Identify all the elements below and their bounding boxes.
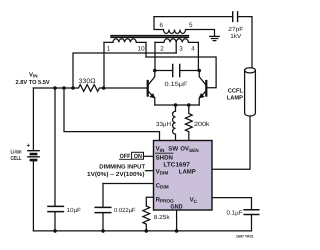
transformer core <box>111 36 189 38</box>
node emitter-inductor <box>174 103 178 107</box>
capacitor C2 0.15uF <box>155 70 199 72</box>
op-amp U1 LTC1697 <box>154 141 213 211</box>
pin 3 center tap wire <box>175 42 177 53</box>
svg-text:5: 5 <box>189 22 193 29</box>
resistor R3 8.25k <box>143 206 150 231</box>
transistor Q2 <box>199 71 206 106</box>
svg-text:8.25k: 8.25k <box>154 214 171 221</box>
pin 4 lead wire down to Q2 collector <box>197 42 199 70</box>
capacitor C5 0.1uF <box>244 210 259 215</box>
svg-text:LAMP: LAMP <box>227 94 243 101</box>
wire CDIM <box>103 183 154 185</box>
svg-text:200k: 200k <box>194 121 211 128</box>
svg-text:VIN: VIN <box>29 71 38 78</box>
pin 1 lead wire down to base rail <box>103 42 105 88</box>
svg-text:6: 6 <box>160 22 164 29</box>
transformer T1 feedback winding pins 2-3-4 <box>155 39 198 43</box>
svg-text:0.1µF: 0.1µF <box>227 209 243 216</box>
CCFL lamp <box>227 68 256 116</box>
svg-text:33µH: 33µH <box>156 121 171 128</box>
wire top from pin 6 to 27pF <box>154 16 233 18</box>
transformer T1 primary winding pins 1-10 <box>104 39 146 43</box>
wire base rail to Q1 <box>104 87 147 89</box>
node VIN-rail dots <box>53 86 57 90</box>
svg-text:SHDN: SHDN <box>156 154 173 161</box>
transformer T1 secondary winding pins 6-5 <box>154 17 215 36</box>
pin 2 lead wire down to Q1 collector <box>154 42 156 70</box>
node emitter-200k <box>187 103 191 107</box>
svg-text:10µF: 10µF <box>67 207 81 214</box>
inductor L1 33uH <box>173 105 176 141</box>
svg-text:4: 4 <box>191 45 195 52</box>
svg-text:3: 3 <box>179 45 183 52</box>
svg-text:CELL: CELL <box>11 155 22 162</box>
wire emitter rail <box>155 104 199 106</box>
wire VIN rail <box>33 87 73 89</box>
node Q2 collector <box>197 69 201 73</box>
capacitor C3 10uF <box>54 88 56 231</box>
node rail dots <box>53 229 57 233</box>
transistor Q1 <box>148 71 155 106</box>
resistor R2 200k <box>185 105 192 141</box>
svg-text:SW: SW <box>168 145 178 152</box>
svg-text:27pF: 27pF <box>228 26 243 33</box>
svg-text:10: 10 <box>138 45 146 52</box>
capacitor C4 0.022uF <box>102 184 104 231</box>
svg-text:ON: ON <box>134 153 142 160</box>
node line A (VIN to center tap) <box>73 53 176 88</box>
wire line B (pin 10 to Q2 base) <box>146 57 216 88</box>
capacitor C1 27pF 1kV <box>233 12 238 22</box>
svg-text:0.022µF: 0.022µF <box>114 207 136 214</box>
svg-text:1697 TA01: 1697 TA01 <box>236 235 254 239</box>
svg-text:330Ω: 330Ω <box>79 78 96 85</box>
battery B1 Li-Ion cell <box>32 88 34 150</box>
svg-text:1V(0%) – 2V(100%): 1V(0%) – 2V(100%) <box>87 171 145 178</box>
wire SHDN <box>144 155 154 157</box>
svg-text:0.15µF: 0.15µF <box>165 81 188 88</box>
svg-text:1: 1 <box>107 45 111 52</box>
wire VDIM <box>146 170 154 172</box>
svg-text:1kV: 1kV <box>230 33 241 40</box>
wire GND stub <box>176 210 178 231</box>
wire ground rail <box>33 230 251 232</box>
svg-text:CCFL: CCFL <box>228 87 244 94</box>
svg-text:LAMP: LAMP <box>179 168 196 175</box>
svg-text:DIMMING INPUT: DIMMING INPUT <box>99 163 145 170</box>
svg-text:2: 2 <box>160 45 164 52</box>
ground (pin 5) <box>210 36 220 40</box>
node Q1 collector <box>153 69 157 73</box>
wire VIN to IC <box>64 88 160 141</box>
SHDN overline <box>156 152 173 154</box>
wire LAMP to lamp bottom <box>212 116 250 169</box>
wire 27pF to lamp top <box>238 17 252 70</box>
wire RPROG to 8.25k <box>146 197 153 206</box>
svg-text:Li-Ion: Li-Ion <box>11 148 22 155</box>
svg-text:+: + <box>26 143 30 150</box>
pin 10 lead wire down to line B <box>145 42 147 57</box>
svg-text:2.8V TO 5.5V: 2.8V TO 5.5V <box>16 79 50 86</box>
resistor R1 330 ohm <box>73 85 104 92</box>
wire VC <box>212 198 252 210</box>
